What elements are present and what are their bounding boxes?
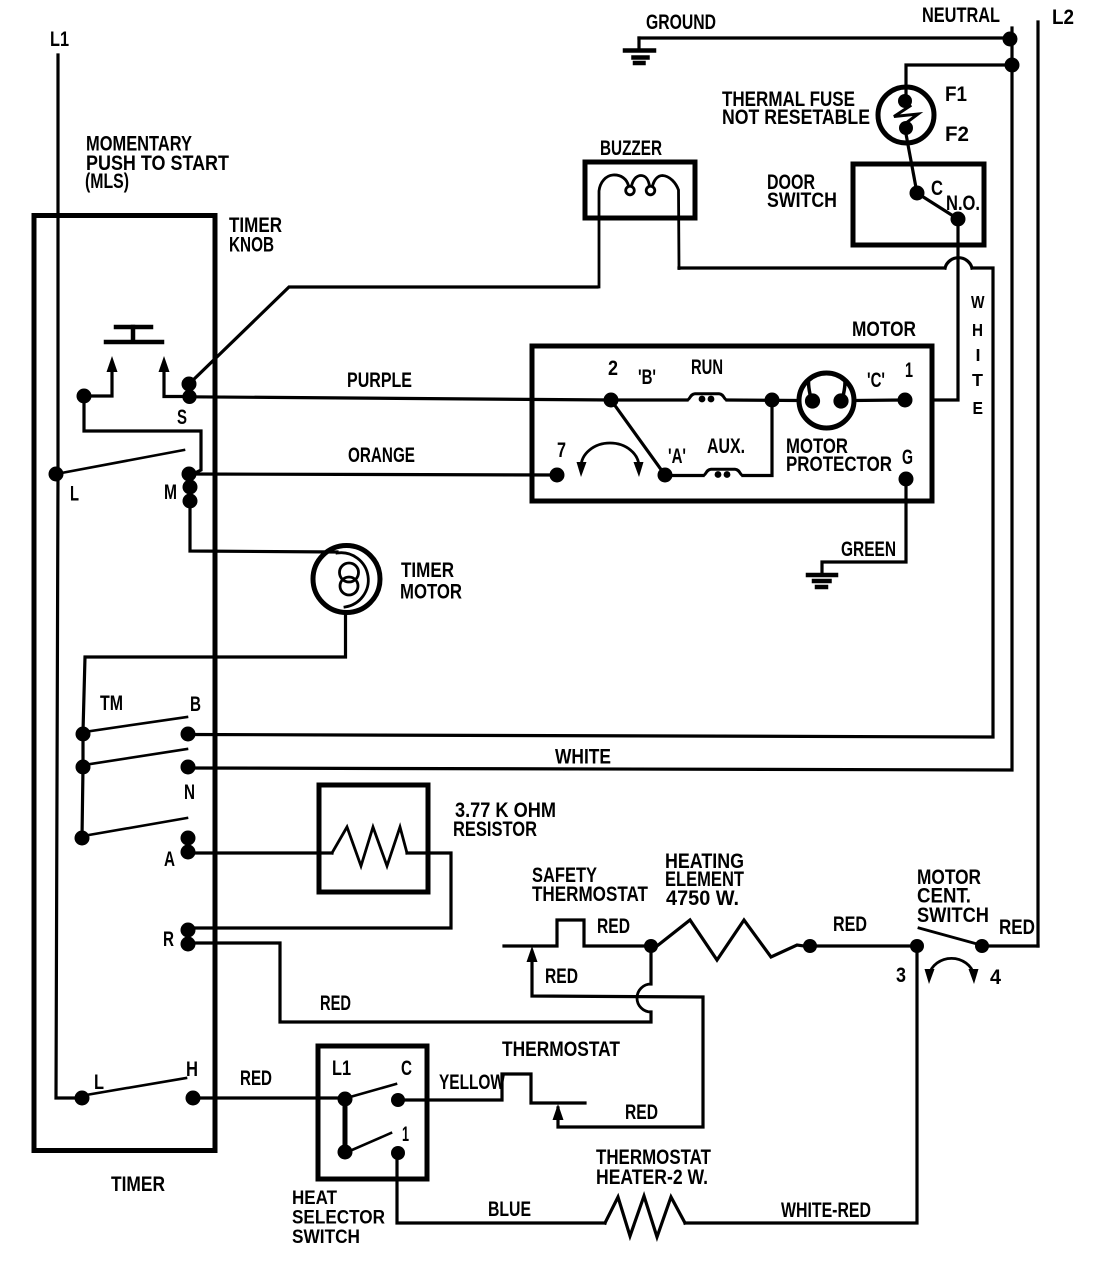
svg-text:GREEN: GREEN <box>841 538 896 561</box>
svg-text:2: 2 <box>608 357 618 380</box>
svg-text:1: 1 <box>402 1123 409 1146</box>
svg-text:4750 W.: 4750 W. <box>666 887 739 910</box>
svg-text:M: M <box>164 481 177 504</box>
svg-text:SELECTOR: SELECTOR <box>292 1208 385 1229</box>
svg-text:RED: RED <box>320 992 351 1015</box>
svg-text:'A': 'A' <box>668 445 686 468</box>
svg-text:THERMOSTAT: THERMOSTAT <box>532 883 648 906</box>
svg-text:L: L <box>94 1071 104 1094</box>
svg-text:HEATER-2 W.: HEATER-2 W. <box>596 1166 708 1189</box>
svg-text:N.O.: N.O. <box>946 192 980 215</box>
svg-text:TIMER: TIMER <box>111 1173 165 1196</box>
svg-text:HEAT: HEAT <box>292 1188 337 1209</box>
svg-text:MOTOR: MOTOR <box>400 581 462 604</box>
svg-text:E: E <box>973 398 984 418</box>
svg-text:RUN: RUN <box>691 356 723 379</box>
svg-text:1: 1 <box>905 359 913 382</box>
svg-text:RED: RED <box>625 1101 658 1124</box>
svg-text:BUZZER: BUZZER <box>600 137 662 160</box>
svg-text:'B': 'B' <box>638 366 656 389</box>
svg-text:BLUE: BLUE <box>488 1198 531 1221</box>
svg-text:'C': 'C' <box>867 369 885 392</box>
svg-text:NOT RESETABLE: NOT RESETABLE <box>722 106 870 129</box>
svg-text:H: H <box>972 320 983 340</box>
svg-text:H: H <box>186 1058 198 1081</box>
svg-text:TIMER: TIMER <box>401 559 454 582</box>
svg-text:WHITE: WHITE <box>555 746 611 769</box>
svg-text:YELLOW: YELLOW <box>439 1071 505 1094</box>
svg-text:PURPLE: PURPLE <box>347 369 412 392</box>
svg-text:RED: RED <box>240 1067 272 1090</box>
svg-text:RED: RED <box>545 965 578 988</box>
svg-text:THERMOSTAT: THERMOSTAT <box>502 1038 620 1061</box>
svg-text:L2: L2 <box>1052 6 1074 29</box>
svg-text:W: W <box>971 292 985 312</box>
svg-text:C: C <box>931 177 943 200</box>
svg-text:7: 7 <box>557 439 566 462</box>
svg-text:N: N <box>184 781 195 804</box>
svg-text:G: G <box>902 446 913 469</box>
svg-text:S: S <box>177 406 187 429</box>
svg-text:A: A <box>164 848 175 871</box>
svg-text:AUX.: AUX. <box>707 435 745 458</box>
svg-text:RED: RED <box>597 915 630 938</box>
svg-text:F2: F2 <box>945 123 969 146</box>
svg-text:(MLS): (MLS) <box>85 170 129 193</box>
svg-text:3: 3 <box>896 964 906 987</box>
svg-text:SWITCH: SWITCH <box>917 904 989 927</box>
svg-text:MOTOR: MOTOR <box>852 318 916 341</box>
svg-text:GROUND: GROUND <box>646 11 716 34</box>
svg-text:L1: L1 <box>332 1057 351 1080</box>
svg-text:R: R <box>163 928 174 951</box>
svg-text:TM: TM <box>100 692 123 715</box>
svg-text:4: 4 <box>990 966 1001 989</box>
svg-text:SWITCH: SWITCH <box>292 1227 360 1248</box>
svg-text:I: I <box>976 345 981 365</box>
svg-text:RESISTOR: RESISTOR <box>453 818 537 841</box>
svg-text:KNOB: KNOB <box>229 234 274 257</box>
svg-text:RED: RED <box>833 913 867 936</box>
svg-text:L1: L1 <box>50 28 69 51</box>
svg-text:T: T <box>972 370 983 390</box>
svg-text:ORANGE: ORANGE <box>348 444 415 467</box>
svg-text:WHITE-RED: WHITE-RED <box>781 1199 871 1222</box>
svg-text:RED: RED <box>999 916 1035 939</box>
svg-text:PROTECTOR: PROTECTOR <box>786 453 892 476</box>
svg-text:B: B <box>190 693 201 716</box>
svg-text:NEUTRAL: NEUTRAL <box>922 4 1000 27</box>
svg-text:C: C <box>401 1057 412 1080</box>
svg-text:F1: F1 <box>945 83 967 106</box>
svg-text:L: L <box>70 483 79 506</box>
svg-text:SWITCH: SWITCH <box>767 189 837 212</box>
